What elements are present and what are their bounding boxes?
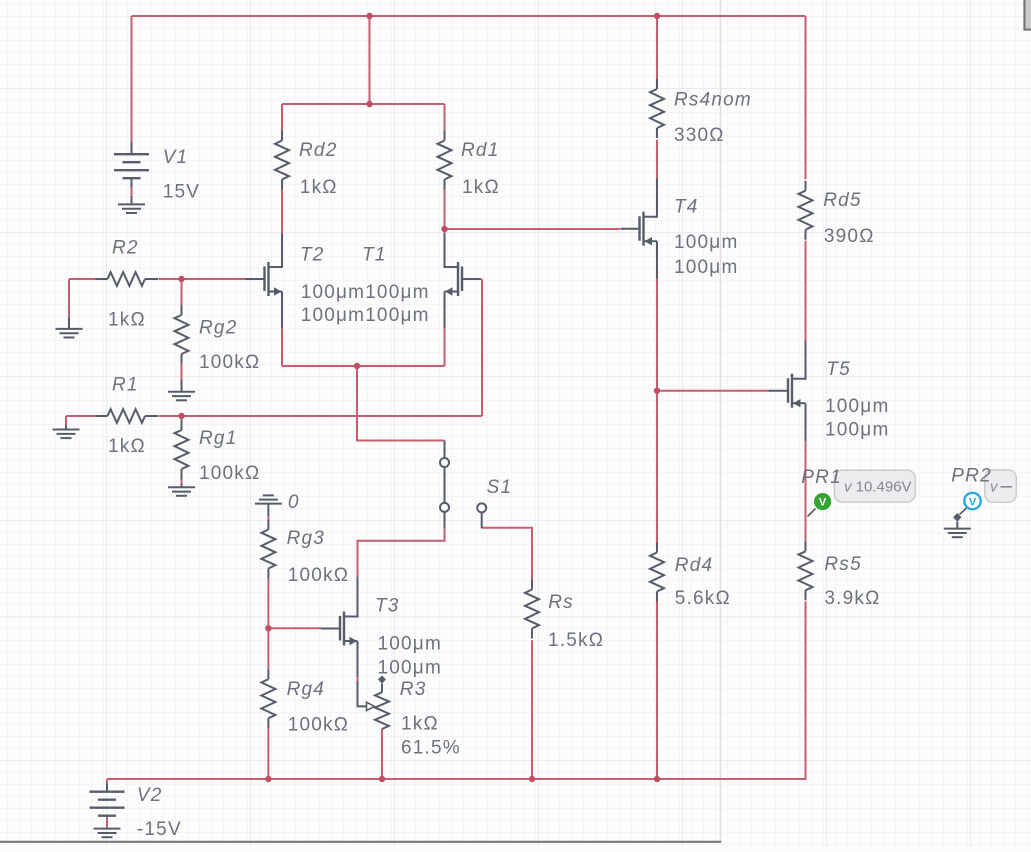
- svg-text:T4: T4: [674, 197, 699, 218]
- wire T5 source to Rs5: [805, 441, 807, 541]
- resistor Rd4: [650, 543, 664, 602]
- wire T1 source drop: [444, 328, 446, 366]
- R3 top terminal diamond: [378, 676, 386, 684]
- probe PR1 pointer: [808, 509, 816, 517]
- battery V2 plates: [90, 792, 125, 816]
- resistor Rg1: [175, 420, 189, 479]
- switch S1 bottom lead: [444, 512, 446, 529]
- junction Rd rail: [366, 101, 372, 107]
- svg-text:Rd2: Rd2: [299, 140, 337, 161]
- resistor Rd1: [438, 131, 452, 190]
- wire T3 source stub: [357, 677, 359, 681]
- svg-text:Rg2: Rg2: [199, 318, 237, 339]
- wire R1 left to ground: [65, 416, 67, 426]
- Q T4 source arrow: [645, 237, 653, 245]
- svg-text:Rs4nom: Rs4nom: [674, 90, 752, 111]
- svg-text:Rs: Rs: [548, 592, 574, 613]
- junction R2 / Rg2 / T2 gate: [178, 276, 184, 282]
- svg-text:5.6kΩ: 5.6kΩ: [675, 588, 731, 609]
- wire R3 bottom to rail: [381, 729, 383, 779]
- svg-text:3.9kΩ: 3.9kΩ: [824, 588, 880, 609]
- probe PR2 circle: [964, 493, 980, 509]
- wire right rail down to Rd5: [805, 16, 807, 179]
- switch S1 contact circle bottom: [440, 503, 449, 512]
- svg-text:T5: T5: [826, 359, 851, 380]
- ground below Rg1: [168, 484, 195, 496]
- switch S1 throw2 circle: [477, 503, 486, 512]
- svg-text:1.5kΩ: 1.5kΩ: [548, 630, 604, 651]
- svg-text:Rd5: Rd5: [823, 190, 861, 211]
- wire bottom -15V rail: [107, 778, 657, 780]
- svg-text:Rd1: Rd1: [461, 140, 499, 161]
- svg-text:100kΩ: 100kΩ: [288, 565, 349, 586]
- probe PR1 tooltip: [834, 470, 915, 502]
- ground R2 left: [56, 317, 83, 337]
- ground node 0 symbol: [255, 495, 282, 516]
- resistor Rg4: [261, 669, 275, 728]
- Q T5 source arrow: [793, 399, 801, 407]
- potentiometer R3: [358, 681, 390, 729]
- svg-text:T3: T3: [375, 596, 400, 617]
- svg-text:100μm: 100μm: [825, 420, 889, 441]
- wire Rg2 bottom to ground: [181, 364, 183, 380]
- wire top +15V rail: [132, 15, 806, 17]
- wire rail to Rs4nom: [656, 16, 658, 79]
- probe PR1 circle: [814, 493, 831, 510]
- ground R1 left: [53, 426, 80, 439]
- junction rail / Rs: [529, 776, 535, 782]
- wire node down to Rg4: [267, 628, 269, 669]
- ground below V1: [118, 196, 145, 213]
- junction top rail / Rs4nom: [654, 13, 660, 19]
- wire T2 source drop: [281, 328, 283, 366]
- wire R1 left lead stub: [66, 415, 96, 417]
- svg-text:1kΩ: 1kΩ: [462, 177, 500, 198]
- transistor Q T3: [321, 577, 358, 677]
- svg-text:R3: R3: [400, 679, 427, 700]
- svg-text:V2: V2: [137, 785, 163, 806]
- svg-text:R2: R2: [112, 238, 139, 259]
- scrollbar thumb top-right: [1024, 0, 1031, 30]
- junction Rg3 / Rg4 / T3 gate: [265, 625, 271, 631]
- transistor Q T2: [246, 234, 283, 329]
- svg-text:Rg4: Rg4: [287, 679, 325, 700]
- wire S1 throw2 to Rs top: [482, 528, 532, 580]
- svg-text:Rg3: Rg3: [287, 528, 325, 549]
- sheet bottom boundary line: [0, 841, 721, 843]
- wire Rd1 top stub: [444, 104, 446, 131]
- Q T3 source arrow: [350, 637, 358, 645]
- svg-text:1kΩ: 1kΩ: [401, 714, 439, 735]
- wire T1 gate riser: [481, 279, 483, 416]
- junction rail / R3: [379, 776, 385, 782]
- wire Rg1 bottom to ground: [181, 479, 183, 484]
- wire Rd5 to T5 drain: [805, 241, 807, 341]
- resistor Rs: [525, 580, 539, 639]
- wire R2 left to ground: [68, 279, 70, 317]
- wire Rd4 bottom: [656, 601, 658, 779]
- junction T2-T1 sources: [354, 363, 360, 369]
- wire node drain1 to T4 gate: [445, 228, 621, 230]
- wire Rd1 bottom to T1 drain: [444, 190, 446, 234]
- wire V1 positive lead: [131, 16, 133, 142]
- svg-text:100kΩ: 100kΩ: [288, 715, 349, 736]
- svg-text:100μm: 100μm: [674, 257, 738, 278]
- Q T2 source arrow: [274, 287, 282, 295]
- ground below Rg2: [168, 380, 195, 401]
- svg-text:V: V: [969, 496, 977, 508]
- wire node to Rg2: [181, 279, 183, 305]
- probe PR2 diamond terminal: [953, 513, 961, 522]
- resistor Rs4nom: [650, 79, 664, 138]
- junction rail / Rd4: [654, 776, 660, 782]
- svg-text:15V: 15V: [163, 182, 200, 203]
- svg-text:v 10.496V: v 10.496V: [844, 478, 912, 495]
- svg-text:100μm: 100μm: [674, 232, 738, 253]
- wire ground 0 to Rg3: [267, 516, 269, 520]
- svg-text:1kΩ: 1kΩ: [108, 310, 146, 331]
- wire T2-T1 source tie: [282, 365, 445, 367]
- wire node to T3 gate: [268, 627, 321, 629]
- battery V1 plates: [114, 154, 149, 178]
- wire Rs5 bottom to -15V rail corner: [657, 601, 806, 779]
- svg-text:Rs5: Rs5: [824, 554, 861, 575]
- svg-text:PR2: PR2: [951, 466, 992, 487]
- sheet right boundary line: [719, 0, 721, 842]
- wire source node to S1 top: [357, 366, 445, 441]
- wire V1 negative stub: [131, 187, 133, 196]
- wire Rs4nom to T4 drain: [656, 140, 658, 179]
- wire V2 top stub: [106, 779, 108, 784]
- wire S1 pole to T3 drain: [358, 528, 445, 577]
- wire Rs bottom: [531, 640, 533, 779]
- junction rail / Rg4: [265, 776, 271, 782]
- svg-text:100μm100μm: 100μm100μm: [301, 305, 430, 326]
- resistor Rd2: [275, 131, 289, 190]
- wire R2 left lead stub: [69, 278, 96, 280]
- resistor Rs5: [799, 541, 813, 600]
- resistor R2: [96, 272, 159, 286]
- junction Rd1 / T4 gate net: [441, 226, 447, 232]
- wire Rg4 bottom to rail: [267, 728, 269, 779]
- wire node to Rg1: [181, 416, 183, 420]
- wire T4 source node to T5 gate: [657, 390, 770, 392]
- switch S1 pole lead: [444, 441, 446, 459]
- svg-text:0: 0: [288, 492, 300, 513]
- transistor Q T4: [621, 178, 658, 278]
- svg-text:390Ω: 390Ω: [824, 226, 875, 247]
- svg-text:100kΩ: 100kΩ: [199, 463, 260, 484]
- wire Rd2 top stub: [281, 104, 283, 131]
- svg-text:100μm: 100μm: [825, 396, 889, 417]
- transistor Q T1: [445, 234, 482, 329]
- svg-text:V: V: [819, 497, 827, 509]
- svg-text:1kΩ: 1kΩ: [300, 177, 338, 198]
- junction T4 source / T5 gate: [654, 388, 660, 394]
- svg-text:T2: T2: [300, 244, 325, 265]
- wire riser rail to Rd rail: [369, 16, 371, 104]
- svg-text:61.5%: 61.5%: [401, 738, 461, 759]
- svg-text:R1: R1: [112, 375, 139, 396]
- svg-text:S1: S1: [487, 477, 513, 498]
- junction R1 / Rg1 / T1 gate: [178, 413, 184, 419]
- resistor Rg3: [261, 520, 275, 579]
- transistor Q T5: [769, 340, 806, 441]
- svg-text:Rd4: Rd4: [675, 555, 713, 576]
- svg-text:100kΩ: 100kΩ: [199, 352, 260, 373]
- svg-text:1kΩ: 1kΩ: [108, 436, 146, 457]
- wire T4 source to Rd4: [656, 278, 658, 542]
- wire R1 to T1 gate column: [159, 415, 483, 417]
- ground below V2: [94, 829, 121, 838]
- R3 wiper arrow: [367, 702, 375, 710]
- svg-text:T1: T1: [362, 244, 387, 265]
- svg-text:PR1: PR1: [801, 467, 842, 488]
- wire R2 to T2 gate: [159, 278, 246, 280]
- svg-text:Rg1: Rg1: [199, 428, 237, 449]
- wire Rd2-Rd1 top rail: [282, 103, 445, 105]
- resistor Rd5: [799, 181, 813, 240]
- svg-text:330Ω: 330Ω: [674, 125, 725, 146]
- svg-text:100μm: 100μm: [378, 633, 442, 654]
- resistor R1: [96, 409, 159, 423]
- ground PR2: [944, 522, 971, 538]
- wire Rg3 bottom to gate node: [267, 579, 269, 629]
- svg-text:V1: V1: [163, 147, 189, 168]
- probe PR2 tooltip: [985, 470, 1017, 503]
- resistor Rg2: [175, 305, 189, 364]
- svg-text:100μm100μm: 100μm100μm: [301, 282, 430, 303]
- probe PR2 pointer: [960, 508, 967, 515]
- switch S1 throw2 lead: [481, 512, 483, 528]
- wire Rd2 bottom to T2 drain: [281, 190, 283, 234]
- Q T1 source arrow: [445, 287, 453, 295]
- svg-text:-15V: -15V: [137, 819, 182, 840]
- switch S1 contact circle top: [440, 458, 449, 467]
- switch S1 blade: [444, 467, 446, 503]
- wire V2 negative stub: [106, 818, 108, 829]
- svg-text:100μm: 100μm: [378, 657, 442, 678]
- junction top rail / riser: [366, 13, 372, 19]
